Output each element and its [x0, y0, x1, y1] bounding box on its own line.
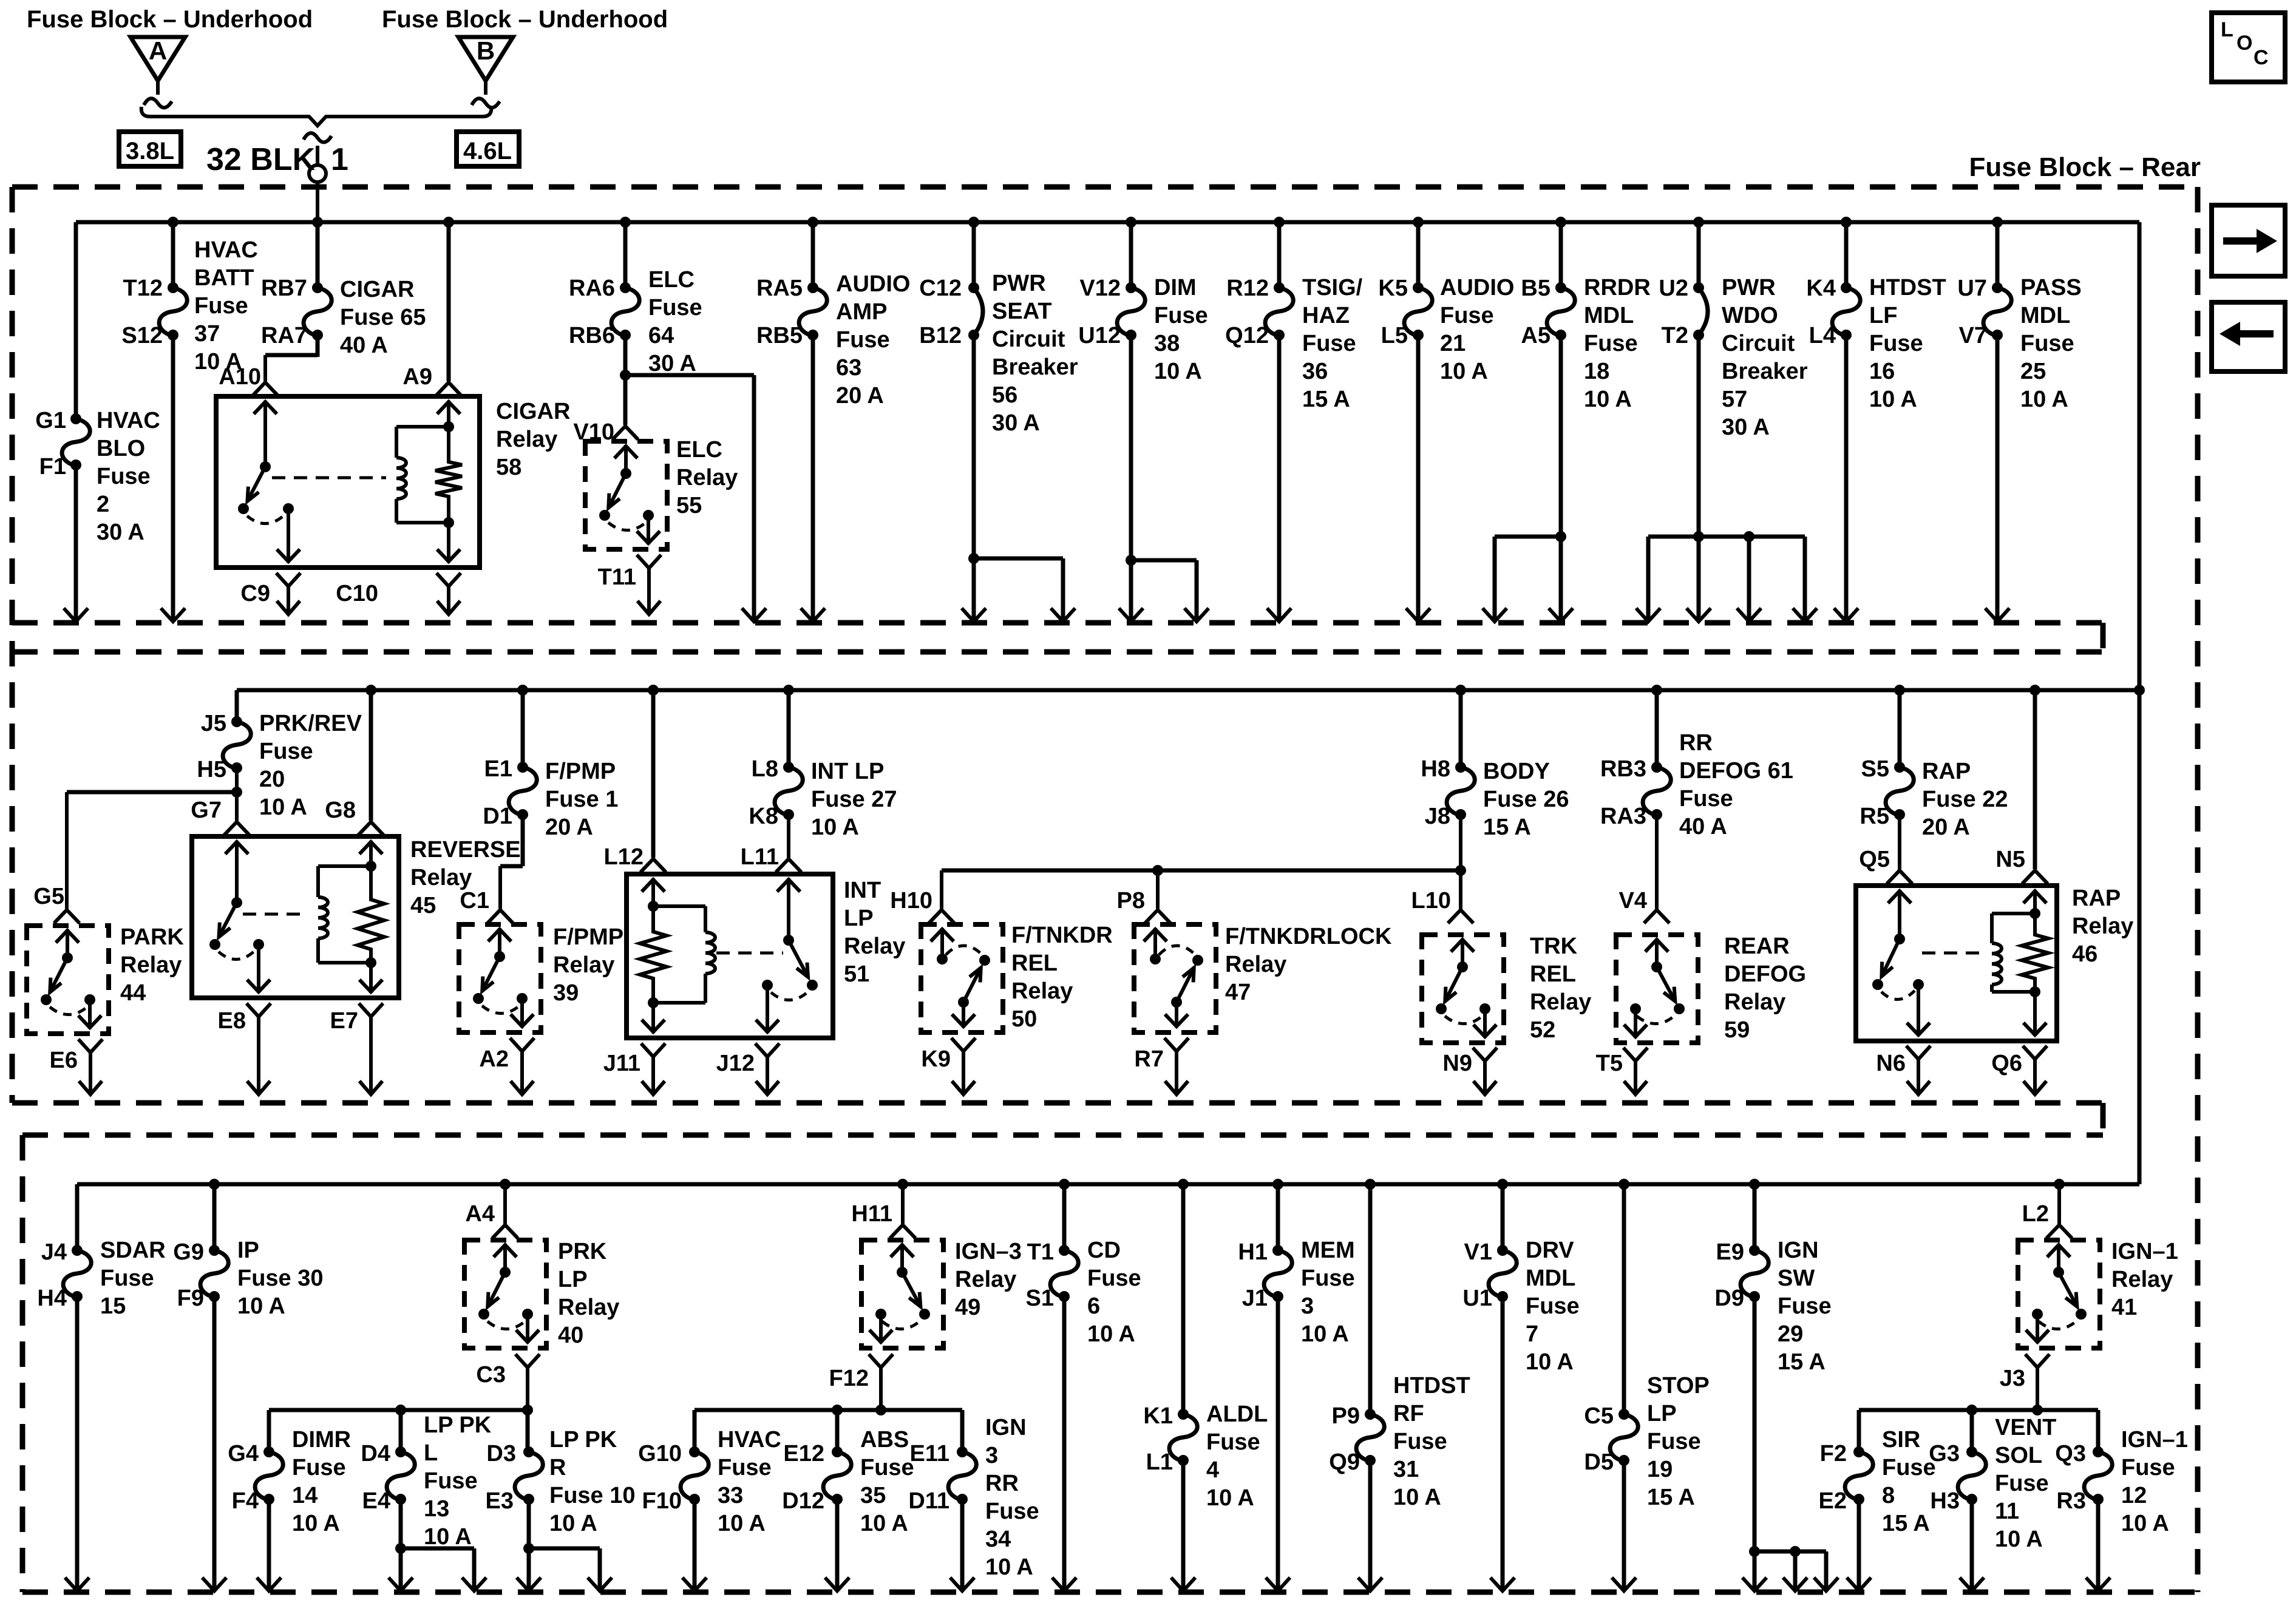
label IGN 3 RR Fuse 34 10 A	[985, 1415, 1039, 1580]
svg-text:Fuse: Fuse	[1647, 1429, 1701, 1454]
label N6	[1876, 1051, 1906, 1076]
relay 46 resistor	[2022, 914, 2048, 992]
svg-text:RR: RR	[1679, 730, 1713, 756]
label IP Fuse 30 10 A	[237, 1238, 324, 1319]
relay 44 PARK	[27, 926, 109, 1034]
svg-text:10 A: 10 A	[292, 1511, 340, 1536]
svg-text:G9: G9	[173, 1239, 204, 1265]
label G10	[638, 1441, 682, 1466]
svg-text:F/TNKDR: F/TNKDR	[1011, 923, 1113, 948]
svg-text:LF: LF	[1869, 303, 1897, 328]
label D9	[1714, 1286, 1744, 1311]
fuse 3 MEM	[1264, 1245, 1292, 1302]
svg-text:10 A: 10 A	[2121, 1511, 2169, 1536]
svg-text:F/PMP: F/PMP	[545, 759, 616, 784]
svg-text:Fuse: Fuse	[648, 295, 702, 320]
fuse 64 ELC	[611, 282, 639, 341]
label G9	[173, 1239, 204, 1265]
fuse 1 F/PMP	[509, 762, 537, 820]
label J11	[603, 1051, 640, 1076]
svg-text:V4: V4	[1619, 888, 1647, 914]
svg-text:B: B	[477, 36, 495, 65]
label CIGAR Fuse 65 40 A	[340, 277, 426, 358]
svg-text:J12: J12	[716, 1051, 755, 1076]
svg-text:14: 14	[292, 1483, 318, 1508]
label C5	[1584, 1403, 1614, 1429]
label K5	[1378, 276, 1408, 301]
label J8	[1425, 804, 1450, 829]
svg-text:4.6L: 4.6L	[463, 138, 512, 164]
wire PWR WDO stub	[1693, 217, 1704, 288]
svg-text:K1: K1	[1143, 1403, 1173, 1429]
svg-text:6: 6	[1087, 1293, 1100, 1319]
svg-text:PWR: PWR	[1722, 275, 1776, 300]
svg-text:8: 8	[1882, 1483, 1895, 1508]
label Q9	[1329, 1449, 1360, 1475]
svg-text:F2: F2	[1820, 1441, 1847, 1466]
label Q12	[1225, 323, 1269, 348]
svg-text:PRK/REV: PRK/REV	[259, 711, 362, 736]
svg-text:CIGAR: CIGAR	[496, 399, 570, 424]
svg-text:40: 40	[558, 1323, 583, 1348]
wire D1 to C1	[500, 815, 523, 909]
wire DIM down	[1119, 335, 1143, 622]
label CIGAR Relay 58	[496, 399, 570, 480]
wire ELC branch right	[625, 375, 766, 622]
svg-text:Q3: Q3	[2055, 1441, 2086, 1466]
svg-text:21: 21	[1440, 331, 1466, 356]
svg-text:10 A: 10 A	[549, 1511, 597, 1536]
fuse block border left	[10, 187, 15, 1103]
label IGN-1 Relay 41	[2111, 1239, 2178, 1320]
fuse 30 IP	[200, 1245, 228, 1302]
svg-text:SOL: SOL	[1995, 1443, 2042, 1468]
svg-text:47: 47	[1225, 980, 1251, 1005]
svg-text:C12: C12	[919, 276, 962, 301]
splice node S232	[309, 165, 326, 182]
relay 46 switch	[1872, 939, 1924, 1000]
label D4	[361, 1441, 390, 1466]
label DIM Fuse 38 10 A	[1154, 275, 1208, 384]
label RA5	[756, 276, 803, 301]
fuse 16 HTDST LF	[1832, 282, 1860, 341]
label E1	[484, 756, 512, 782]
svg-text:Fuse: Fuse	[1995, 1471, 2049, 1496]
svg-text:A9: A9	[402, 364, 432, 390]
svg-text:15 A: 15 A	[1778, 1349, 1826, 1375]
svg-text:Relay: Relay	[558, 1295, 619, 1320]
svg-text:ELC: ELC	[676, 437, 722, 463]
svg-text:F4: F4	[232, 1488, 259, 1514]
relay 58 coil pin A9	[437, 401, 460, 432]
label T2	[1662, 323, 1688, 348]
relay 46 switch pin Q5	[1888, 890, 1911, 944]
connector K9	[951, 1038, 976, 1094]
svg-text:Fuse: Fuse	[1087, 1266, 1141, 1291]
svg-text:J5: J5	[201, 711, 226, 736]
svg-text:VENT: VENT	[1995, 1415, 2056, 1440]
svg-text:SEAT: SEAT	[992, 299, 1052, 324]
label IGN SW Fuse 29 15 A	[1778, 1238, 1832, 1375]
label AUDIO AMP Fuse 63 20 A	[836, 271, 910, 408]
svg-text:R7: R7	[1134, 1046, 1164, 1072]
svg-text:Fuse: Fuse	[2020, 331, 2074, 356]
wire HTDST LF stub	[1841, 217, 1852, 288]
wire LP PK R branch	[529, 1548, 612, 1591]
wire feed H10 P8	[942, 865, 1461, 909]
svg-text:Fuse: Fuse	[836, 327, 890, 353]
wire L2 stub	[2054, 1179, 2065, 1224]
svg-text:Fuse 1: Fuse 1	[545, 787, 618, 812]
svg-text:G3: G3	[1929, 1441, 1960, 1466]
label RB7	[261, 276, 307, 301]
svg-text:MDL: MDL	[1584, 303, 1634, 328]
label J1	[1242, 1286, 1268, 1311]
svg-text:DIM: DIM	[1154, 275, 1197, 300]
svg-text:15 A: 15 A	[1882, 1511, 1930, 1536]
fuse 26 BODY	[1447, 762, 1475, 820]
svg-text:49: 49	[955, 1295, 980, 1320]
wire RRDR stub	[1555, 217, 1566, 288]
wire DIM branch	[1131, 560, 1209, 622]
fuse block border band1 top	[12, 185, 2198, 190]
label P9	[1332, 1403, 1360, 1429]
label H10	[890, 888, 932, 914]
svg-text:LP: LP	[844, 906, 874, 931]
svg-text:12: 12	[2121, 1483, 2147, 1508]
connector V4	[1644, 910, 1669, 923]
label H1	[1238, 1239, 1268, 1265]
svg-text:HTDST: HTDST	[1869, 275, 1946, 300]
svg-text:Relay: Relay	[676, 465, 738, 490]
circuit breaker 56 PWR SEAT	[968, 282, 983, 341]
connector E8	[246, 1003, 271, 1094]
label F12	[829, 1366, 869, 1391]
svg-text:E11: E11	[909, 1441, 949, 1466]
svg-text:INT: INT	[844, 878, 881, 903]
svg-text:MEM: MEM	[1301, 1238, 1355, 1263]
label K4	[1806, 276, 1836, 301]
connector F12	[869, 1354, 893, 1410]
label PRK LP Relay 40	[558, 1239, 619, 1348]
svg-text:59: 59	[1724, 1017, 1750, 1043]
relay 58 switch pin A10	[254, 401, 277, 472]
svg-text:64: 64	[648, 323, 674, 348]
svg-text:20 A: 20 A	[836, 383, 884, 408]
wire R5 to Q5	[1898, 815, 1901, 869]
relay 58 switch	[238, 467, 294, 524]
wire ELC stub	[620, 217, 631, 288]
svg-text:Fuse: Fuse	[1393, 1429, 1447, 1454]
svg-text:IGN–1: IGN–1	[2121, 1427, 2188, 1453]
svg-text:SIR: SIR	[1882, 1427, 1920, 1453]
svg-text:F10: F10	[642, 1488, 682, 1514]
label D11	[908, 1488, 949, 1514]
svg-text:BODY: BODY	[1483, 759, 1550, 784]
svg-text:10 A: 10 A	[985, 1554, 1033, 1580]
svg-text:L12: L12	[604, 844, 644, 870]
svg-text:D5: D5	[1584, 1449, 1614, 1475]
label G1	[35, 408, 66, 433]
svg-text:46: 46	[2072, 941, 2097, 967]
label N9	[1442, 1051, 1472, 1076]
wire CIGAR stub	[312, 217, 323, 288]
wire F12 jumper	[695, 1405, 962, 1415]
svg-text:Fuse 22: Fuse 22	[1922, 787, 2008, 812]
svg-text:D4: D4	[361, 1441, 390, 1466]
svg-text:RB7: RB7	[261, 276, 307, 301]
label S12	[121, 323, 163, 348]
svg-text:LP: LP	[558, 1267, 588, 1292]
svg-text:H3: H3	[1930, 1488, 1960, 1514]
label L8	[752, 756, 778, 782]
svg-text:Fuse: Fuse	[1154, 303, 1208, 328]
svg-text:Relay: Relay	[2072, 914, 2133, 939]
label DRV MDL Fuse 7 10 A	[1526, 1238, 1580, 1375]
relay 51 resistor	[640, 906, 667, 1008]
label U12	[1078, 323, 1121, 348]
wire LP PK L down	[389, 1499, 413, 1591]
wire IGN SW down	[1742, 1297, 1767, 1591]
svg-text:N5: N5	[1995, 847, 2025, 872]
svg-text:RB3: RB3	[1600, 756, 1646, 782]
svg-text:4: 4	[1206, 1457, 1219, 1483]
title Fuse Block - Underhood (A)	[27, 6, 313, 33]
relay 51 switch pin L11	[777, 878, 800, 946]
connector L10	[1448, 910, 1473, 923]
relay 46 coil pin N5	[2023, 890, 2046, 919]
wire HVAC BATT stub	[168, 217, 178, 288]
svg-text:Fuse: Fuse	[718, 1455, 772, 1480]
label LP PK L Fuse 13 10 A	[424, 1412, 492, 1550]
svg-text:F12: F12	[829, 1366, 869, 1391]
fuse 14 DIMR	[255, 1446, 283, 1505]
wire ALDL down	[1171, 1460, 1195, 1591]
fuse block border band2 top	[12, 649, 2103, 655]
svg-text:Breaker: Breaker	[992, 354, 1078, 380]
svg-text:RAP: RAP	[1922, 759, 1971, 784]
svg-text:SDAR: SDAR	[100, 1238, 166, 1263]
svg-text:B12: B12	[919, 323, 962, 348]
svg-text:36: 36	[1302, 359, 1328, 384]
svg-text:15 A: 15 A	[1302, 387, 1350, 412]
label K9	[921, 1046, 951, 1072]
fuse block border band3 top	[22, 1133, 2103, 1138]
svg-text:19: 19	[1647, 1457, 1673, 1482]
svg-text:K4: K4	[1806, 276, 1836, 301]
svg-text:REL: REL	[1011, 951, 1058, 976]
wire P8 stub	[1156, 870, 1160, 909]
svg-text:P8: P8	[1117, 888, 1145, 914]
label RA3	[1600, 804, 1646, 829]
fuse 18 RRDR MDL	[1547, 282, 1575, 341]
svg-text:R3: R3	[2056, 1488, 2086, 1514]
connector A4	[492, 1225, 518, 1238]
svg-text:RF: RF	[1393, 1401, 1424, 1426]
relay 46 coil output	[2023, 992, 2046, 1036]
svg-text:3.8L: 3.8L	[126, 138, 174, 164]
label DIMR Fuse 14 10 A	[292, 1427, 351, 1536]
svg-text:K8: K8	[749, 804, 778, 829]
label R12	[1226, 276, 1269, 301]
svg-text:Fuse: Fuse	[424, 1468, 478, 1494]
svg-text:A10: A10	[219, 364, 261, 390]
svg-text:IGN–1: IGN–1	[2111, 1239, 2178, 1264]
fuse 34 IGN 3 RR	[948, 1446, 976, 1505]
svg-text:AUDIO: AUDIO	[1440, 275, 1514, 300]
svg-text:Relay: Relay	[1724, 989, 1785, 1015]
svg-text:S12: S12	[121, 323, 163, 348]
svg-text:T11: T11	[598, 564, 636, 590]
label HTDST LF Fuse 16 10 A	[1869, 275, 1946, 412]
svg-text:J11: J11	[603, 1051, 640, 1076]
label RAP Fuse 22 20 A	[1922, 759, 2008, 840]
svg-text:Fuse: Fuse	[259, 739, 313, 764]
label VENT SOL Fuse 11 10 A	[1995, 1415, 2056, 1552]
svg-text:RB6: RB6	[569, 323, 615, 348]
svg-text:L1: L1	[1146, 1449, 1173, 1475]
svg-text:CIGAR: CIGAR	[340, 277, 414, 302]
connector G8	[358, 822, 384, 835]
relay 58 coil	[396, 427, 454, 528]
label D12	[782, 1488, 824, 1514]
svg-text:DEFOG: DEFOG	[1724, 961, 1806, 987]
wire RRDR branch left	[1483, 537, 1561, 622]
svg-text:V7: V7	[1959, 323, 1987, 348]
title Fuse Block - Underhood (B)	[382, 6, 668, 33]
connector H10	[929, 910, 954, 923]
relay 51 INT LP box	[627, 874, 833, 1038]
relay 39 F/PMP	[459, 924, 541, 1032]
wire CD stub	[1059, 1179, 1070, 1250]
label B12	[919, 323, 962, 348]
wire MEM stub	[1272, 1179, 1283, 1250]
label V10	[573, 419, 614, 445]
relay 51 coil link	[716, 952, 783, 955]
LOC reference box	[2212, 13, 2285, 82]
svg-text:10 A: 10 A	[1301, 1321, 1349, 1347]
fuse 6 CD	[1050, 1245, 1078, 1302]
label F/TNKDRLOCK Relay 47	[1225, 924, 1392, 1005]
wire IGN3RR drop	[960, 1410, 965, 1452]
svg-text:HAZ: HAZ	[1302, 303, 1350, 328]
svg-text:F1: F1	[39, 454, 66, 480]
wire CD down	[1052, 1297, 1076, 1591]
band3 bus	[77, 1182, 2139, 1187]
svg-text:10 A: 10 A	[237, 1293, 285, 1319]
svg-text:C1: C1	[460, 888, 489, 914]
wire SIR down	[1847, 1499, 1871, 1591]
label T1	[1027, 1239, 1054, 1265]
fuse block border bracket 2	[2101, 1103, 2106, 1135]
svg-text:Q5: Q5	[1859, 847, 1890, 872]
svg-text:RA5: RA5	[756, 276, 803, 301]
circuit breaker 57 PWR WDO	[1693, 282, 1708, 341]
connector triangle B	[458, 36, 513, 107]
nav arrow right	[2212, 205, 2285, 276]
svg-text:Fuse: Fuse	[1679, 786, 1733, 812]
label F9	[177, 1286, 204, 1311]
svg-text:10 A: 10 A	[718, 1511, 766, 1536]
fuse 38 DIM	[1117, 282, 1145, 341]
label F/PMP Relay 39	[553, 924, 623, 1006]
label PRK/REV Fuse 20 10 A	[259, 711, 362, 820]
svg-text:PRK: PRK	[558, 1239, 607, 1264]
svg-text:RA3: RA3	[1600, 804, 1646, 829]
svg-text:DRV: DRV	[1526, 1238, 1574, 1263]
wire HVAC33 down	[682, 1499, 707, 1591]
connector Q6	[2023, 1046, 2047, 1094]
connector N6	[1906, 1046, 1931, 1094]
relay 46 coil	[1992, 914, 2040, 997]
svg-text:Relay: Relay	[2111, 1267, 2173, 1292]
svg-text:D3: D3	[486, 1441, 516, 1466]
wire AUDIO AMP down	[801, 335, 825, 622]
svg-text:TRK: TRK	[1530, 934, 1578, 959]
wire PRK/REV stub	[235, 690, 239, 722]
fuse 29 IGN SW	[1741, 1245, 1768, 1302]
label IGN-1 Fuse 12 10 A	[2121, 1427, 2188, 1536]
label TRK REL Relay 52	[1530, 934, 1591, 1043]
label J3	[2000, 1366, 2025, 1391]
svg-text:E2: E2	[1819, 1488, 1847, 1514]
svg-text:LP: LP	[1647, 1401, 1677, 1426]
svg-text:RR: RR	[985, 1471, 1019, 1496]
svg-text:56: 56	[992, 382, 1017, 408]
svg-text:D9: D9	[1714, 1286, 1744, 1311]
svg-text:H11: H11	[851, 1201, 892, 1227]
connector P8	[1145, 910, 1170, 923]
wire TSIG down	[1267, 335, 1291, 622]
label L10	[1411, 888, 1451, 914]
fuse 13 LP PK L	[387, 1446, 415, 1505]
wire PWR SEAT branch	[974, 558, 1075, 622]
svg-text:R12: R12	[1226, 276, 1269, 301]
label L4	[1809, 323, 1836, 348]
label D1	[483, 804, 512, 829]
svg-text:U7: U7	[1957, 276, 1987, 301]
svg-text:30 A: 30 A	[648, 351, 696, 376]
svg-text:LP PK: LP PK	[549, 1427, 617, 1453]
label L12	[604, 844, 644, 870]
relay 52 TRK REL	[1422, 935, 1504, 1043]
svg-text:DEFOG 61: DEFOG 61	[1679, 758, 1793, 784]
svg-text:C: C	[2254, 46, 2269, 69]
svg-text:T12: T12	[123, 276, 163, 301]
band2 bus	[237, 685, 2145, 696]
label Q5	[1859, 847, 1890, 872]
label J5	[201, 711, 226, 736]
label C10	[336, 581, 378, 606]
wire HTDST RF stub	[1365, 1179, 1376, 1414]
label C1	[460, 888, 489, 914]
svg-text:PARK: PARK	[120, 924, 184, 950]
svg-text:15 A: 15 A	[1647, 1485, 1695, 1510]
svg-text:B5: B5	[1521, 276, 1550, 301]
right bus wire	[2138, 222, 2142, 1184]
wire MEM down	[1266, 1297, 1290, 1591]
label G5	[33, 884, 64, 909]
fuse 21 AUDIO	[1404, 282, 1432, 341]
svg-text:S1: S1	[1026, 1286, 1054, 1311]
label G8	[325, 798, 356, 823]
svg-text:K5: K5	[1378, 276, 1408, 301]
label J4	[41, 1239, 67, 1265]
wire LP PK R drop	[526, 1410, 530, 1452]
fuse 37 HVAC BATT	[159, 282, 187, 341]
label G4	[228, 1441, 259, 1466]
svg-text:TSIG/: TSIG/	[1302, 275, 1363, 300]
